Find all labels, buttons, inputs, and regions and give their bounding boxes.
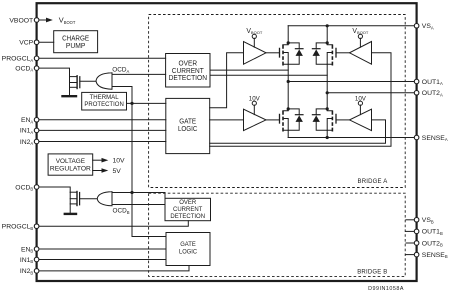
transistor FET A (OCD pulldown) xyxy=(70,76,97,95)
svg-text:PUMP: PUMP xyxy=(66,41,86,50)
svg-text:OUT1B: OUT1B xyxy=(422,229,443,236)
node OUT1 junction xyxy=(287,80,290,83)
node VS rail junction xyxy=(326,24,329,27)
pin IN1_B xyxy=(20,257,39,264)
node M4 drain junction xyxy=(326,107,329,110)
wire PROGCL_A to OCD A xyxy=(37,57,166,59)
wire thermal protection output xyxy=(127,102,166,104)
node SENSE junction xyxy=(326,136,329,139)
svg-text:IN1B: IN1B xyxy=(20,257,34,264)
svg-text:VSB: VSB xyxy=(422,217,434,224)
wire OR A bottom input to thermal node xyxy=(112,87,132,104)
pin IN2_B xyxy=(20,268,39,275)
diode D3 (M3 body) xyxy=(288,109,303,130)
node thermal junction xyxy=(130,102,133,105)
op-amp driver T_B2 (low-side right, points left) xyxy=(350,109,372,130)
wire OR B bottom input to OCD B box xyxy=(112,204,165,206)
wire EN_B to gate logic B xyxy=(37,248,166,250)
svg-text:5V: 5V xyxy=(113,168,122,175)
svg-text:PROGCLB: PROGCLB xyxy=(2,224,34,231)
block CHARGE PUMP xyxy=(54,31,98,53)
svg-text:ENA: ENA xyxy=(21,117,33,124)
wire OCD_A pin to FET xyxy=(37,68,70,77)
block OVER CURRENT DETECTION B xyxy=(165,198,211,220)
wire T_B2 output to M4 gate xyxy=(336,119,350,121)
wire T_B1 output to M2 gate xyxy=(336,52,350,54)
svg-text:SENSEB: SENSEB xyxy=(422,252,448,259)
bridge A dashed box xyxy=(149,15,406,188)
node OUT2 junction xyxy=(326,91,329,94)
op-amp driver T_B1 (high-side right, points left) xyxy=(350,42,372,65)
diode D2 (M2 body) xyxy=(312,43,327,64)
wire 10V output arrow xyxy=(93,158,109,163)
diode D4 (M4 body) xyxy=(312,109,327,130)
pin VCP xyxy=(19,40,39,47)
block OVER CURRENT DETECTION A xyxy=(166,54,210,88)
svg-text:OUT2A: OUT2A xyxy=(422,90,443,97)
wire gate logic to driver T_A1 xyxy=(210,53,244,108)
transistor M3 (low-side left) xyxy=(280,82,289,138)
svg-text:CURRENT: CURRENT xyxy=(173,207,203,213)
pin OCD_A xyxy=(15,65,39,72)
svg-text:OCDA: OCDA xyxy=(15,65,33,72)
pin SENSE_A xyxy=(414,135,448,142)
svg-text:VBOOT: VBOOT xyxy=(9,17,33,24)
wire OUT1 rail xyxy=(288,81,416,83)
wire OR B top input (thermal) to OCD B box xyxy=(112,193,165,199)
pin EN_A xyxy=(21,117,39,124)
bridge B dashed box xyxy=(149,193,406,276)
pin IN2_A xyxy=(20,139,39,146)
wire T_B1 input routing from gate logic xyxy=(210,53,391,146)
wire IN1_A to gate logic xyxy=(37,129,166,131)
gate OR A (points left) xyxy=(96,73,112,89)
pin VS_B xyxy=(414,217,434,224)
transistor FET B (OCD pulldown) xyxy=(70,192,97,214)
wire OUT2 rail xyxy=(327,92,416,94)
svg-text:ENB: ENB xyxy=(21,246,33,253)
svg-text:VBOOT: VBOOT xyxy=(59,16,76,25)
wire IN2_B to gate logic B xyxy=(37,266,189,271)
svg-text:IN2B: IN2B xyxy=(20,268,34,275)
node V_BOOT supply T_A1 xyxy=(246,28,262,47)
svg-text:IN2A: IN2A xyxy=(20,139,34,146)
svg-text:OCDB: OCDB xyxy=(113,208,130,215)
wire 5V output arrow xyxy=(93,168,109,173)
pin PROGCL_A xyxy=(2,56,39,63)
wire OR A top input to OCD box xyxy=(112,73,166,75)
pin VBOOT xyxy=(9,17,38,24)
svg-text:GATE: GATE xyxy=(180,241,196,248)
wire PROGCL_B to OCD B box xyxy=(37,221,189,227)
transistor M2 (high-side right, mirrored) xyxy=(327,26,336,93)
svg-text:SENSEA: SENSEA xyxy=(422,135,448,142)
op-amp driver T_A2 (low-side left) xyxy=(244,109,267,130)
ground (FET B) xyxy=(65,213,76,215)
pin OCD_B xyxy=(15,184,39,191)
wire EN_A to gate logic xyxy=(37,119,166,121)
svg-text:BRIDGE B: BRIDGE B xyxy=(357,269,387,275)
svg-text:OCDA: OCDA xyxy=(112,67,129,74)
wire OCD A sense of OUT2 xyxy=(210,74,327,76)
wire VS rail xyxy=(288,25,416,27)
pin IN1_A xyxy=(20,128,39,135)
wire SENSE_B stub xyxy=(406,254,417,256)
svg-text:GATE: GATE xyxy=(179,119,196,126)
svg-text:LOGIC: LOGIC xyxy=(178,126,198,133)
svg-text:OVER: OVER xyxy=(179,200,197,206)
svg-text:OVER: OVER xyxy=(179,61,198,68)
svg-text:10V: 10V xyxy=(113,158,126,165)
wire T_A2 output to M3 gate xyxy=(266,119,280,121)
wire VS_B stub xyxy=(406,219,417,221)
node 10V supply T_B2 xyxy=(355,96,367,115)
block GATE LOGIC B xyxy=(166,233,210,266)
transistor M1 (high-side left) xyxy=(280,26,289,82)
wire IN1_B to gate logic B xyxy=(37,259,166,261)
wire gate logic to driver T_A2 xyxy=(210,119,244,121)
svg-text:IN1A: IN1A xyxy=(20,128,34,135)
pin SENSE_B xyxy=(414,252,448,259)
svg-text:DETECTION: DETECTION xyxy=(169,75,207,82)
pin VS_A xyxy=(414,23,434,30)
block GATE LOGIC A xyxy=(166,98,210,153)
node M1 drain junction xyxy=(287,41,290,44)
svg-text:DETECTION: DETECTION xyxy=(170,214,205,220)
svg-text:VOLTAGE: VOLTAGE xyxy=(56,158,86,165)
svg-text:REGULATOR: REGULATOR xyxy=(50,165,91,172)
block THERMAL PROTECTION xyxy=(82,92,127,110)
pin OUT1_A xyxy=(414,79,443,86)
transistor M4 (low-side right, mirrored) xyxy=(327,93,336,138)
wire VCP to charge pump xyxy=(37,41,54,43)
svg-text:LOGIC: LOGIC xyxy=(179,248,197,255)
pin EN_B xyxy=(21,246,39,253)
svg-text:VSA: VSA xyxy=(422,23,434,30)
block VOLTAGE REGULATOR xyxy=(48,154,93,175)
wire T_A1 output to M1 gate xyxy=(266,52,280,54)
svg-text:OUT1A: OUT1A xyxy=(422,79,443,86)
svg-text:D99IN1058A: D99IN1058A xyxy=(368,286,404,292)
wire OUT2_B stub xyxy=(406,242,417,244)
wire OCD A sense of OUT1 xyxy=(210,69,288,71)
pin OUT2_B xyxy=(414,240,443,247)
svg-text:CURRENT: CURRENT xyxy=(172,68,205,75)
wire OUT1_B stub xyxy=(406,230,417,232)
node 10V supply T_A2 xyxy=(249,96,261,115)
svg-text:OCDB: OCDB xyxy=(15,184,33,191)
diode D1 (M1 body) xyxy=(288,43,303,64)
svg-text:OUT2B: OUT2B xyxy=(422,240,443,247)
pin OUT2_A xyxy=(414,90,443,97)
svg-text:BRIDGE A: BRIDGE A xyxy=(358,179,388,185)
wire IN2_A to gate logic xyxy=(37,141,166,143)
node V_BOOT supply T_B1 xyxy=(352,28,369,47)
node M3 drain junction xyxy=(287,107,290,110)
svg-text:VCP: VCP xyxy=(19,40,33,47)
wire OCD_B pin to FET xyxy=(37,187,71,192)
wire thermal bus down to OR B xyxy=(132,103,166,236)
node M2 drain junction xyxy=(326,41,329,44)
gate OR B (points left) xyxy=(97,192,112,206)
svg-text:PROGCLA: PROGCLA xyxy=(2,56,34,63)
wire T_B2 input routing from gate logic xyxy=(210,120,386,143)
node thermal-OR B junction xyxy=(130,191,133,194)
ground (FET A) xyxy=(63,95,77,97)
pin OUT1_B xyxy=(414,229,443,236)
op-amp driver T_A1 (high-side left) xyxy=(244,42,267,65)
wire SENSE rail xyxy=(288,137,416,139)
pin PROGCL_B xyxy=(2,224,39,231)
wire VBOOT arrow xyxy=(39,18,53,23)
svg-text:PROTECTION: PROTECTION xyxy=(84,101,123,108)
